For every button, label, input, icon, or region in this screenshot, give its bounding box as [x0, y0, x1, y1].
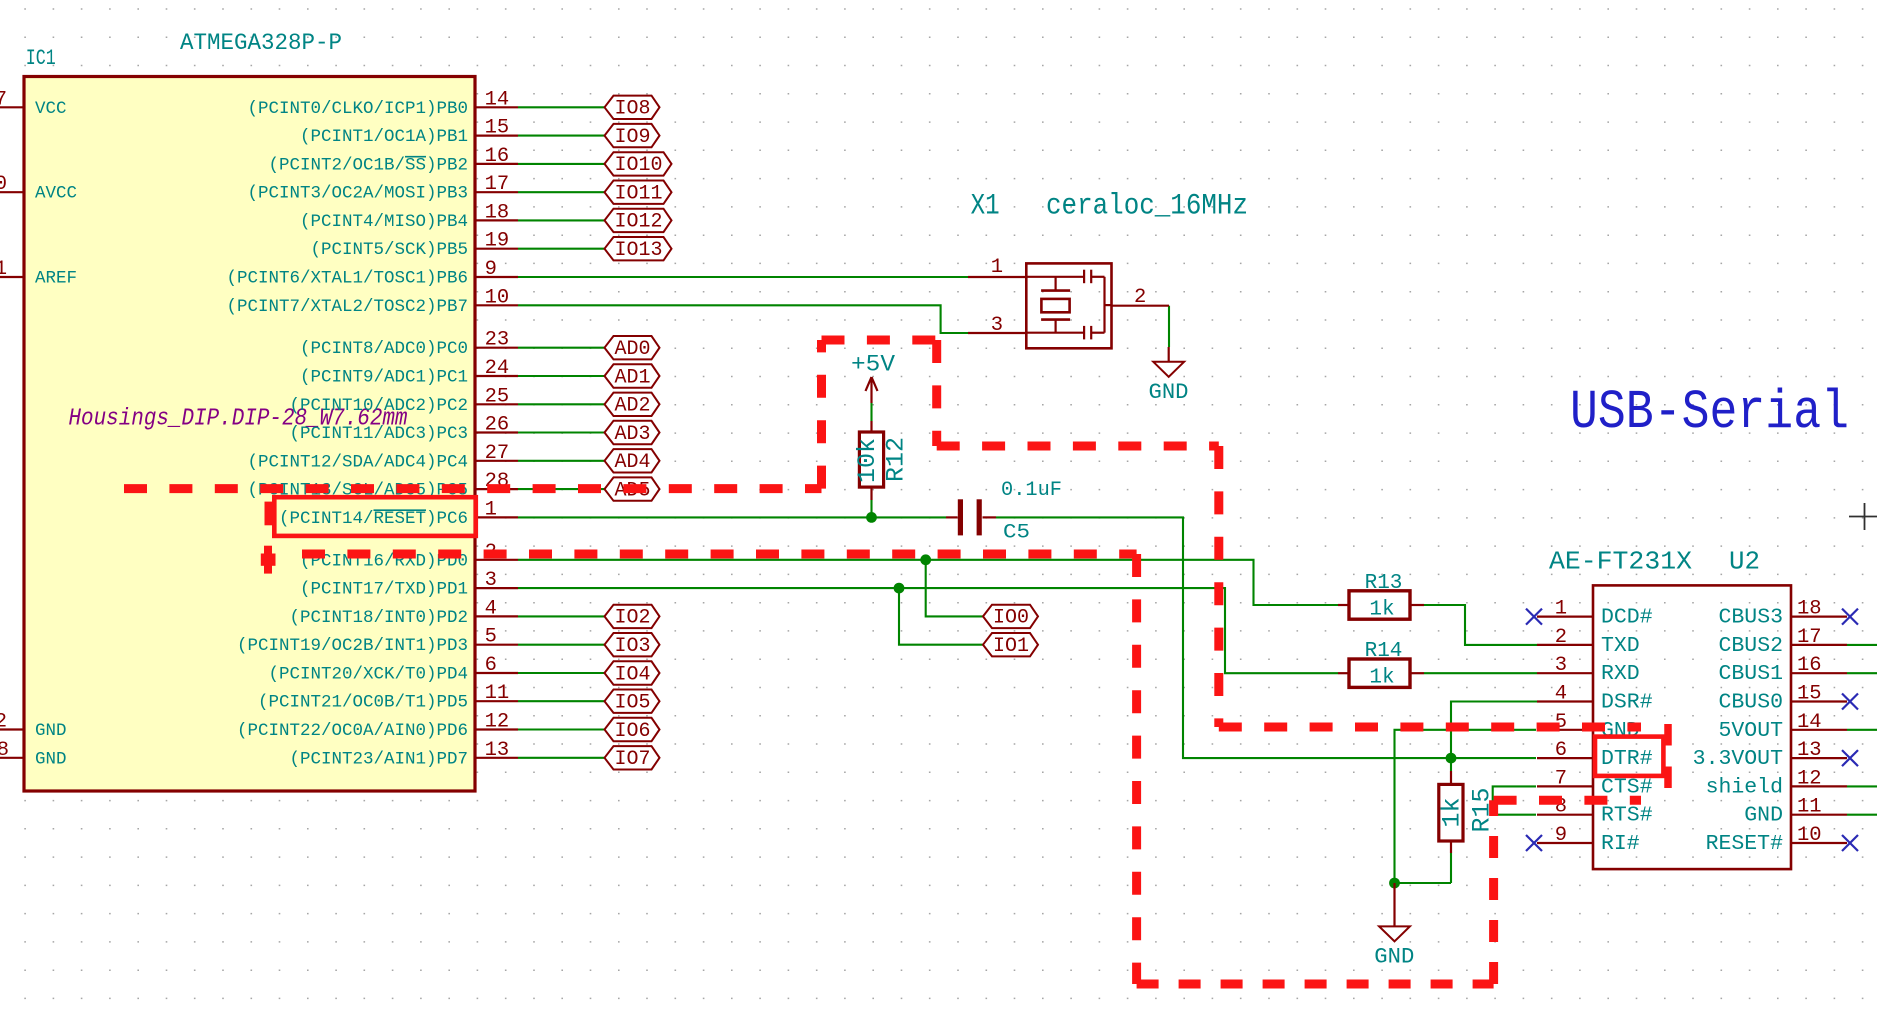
- IC1 pin 4 PD2: [289, 597, 518, 628]
- IC1 pin 11 PD5: [258, 682, 518, 713]
- svg-text:IO5: IO5: [615, 692, 651, 715]
- svg-text:0.1uF: 0.1uF: [1001, 479, 1062, 502]
- wire PB5 to label IO13: [518, 248, 605, 250]
- wire PC5 to label AD5: [518, 488, 605, 490]
- wire U2 5VOUT pin14 to edge: [1847, 729, 1877, 731]
- svg-text:CBUS2: CBUS2: [1718, 634, 1783, 658]
- svg-text:shield: shield: [1706, 775, 1783, 799]
- svg-text:23: 23: [485, 329, 510, 352]
- svg-text:5VOUT: 5VOUT: [1718, 719, 1783, 743]
- svg-text:1: 1: [1555, 598, 1567, 621]
- IC1 pin 8x GND (left): [0, 739, 67, 770]
- wire PC1 to label AD1: [518, 375, 605, 377]
- wire DSR pin4 to DTR net: [1451, 702, 1537, 759]
- junction GND node: [1389, 878, 1400, 889]
- svg-text:3: 3: [1555, 654, 1567, 677]
- resistor R13 1k: [1338, 572, 1424, 622]
- svg-text:13: 13: [1797, 739, 1822, 762]
- U2 pin 9 RI#: [1526, 824, 1640, 856]
- U2 pin 5 GND: [1537, 711, 1640, 743]
- IC1 pin 24 PC1: [300, 357, 518, 388]
- svg-text:RTS#: RTS#: [1601, 804, 1653, 828]
- wire U2 CBUS1 pin16 to edge: [1847, 672, 1877, 674]
- wire PC3 to label AD3: [518, 431, 605, 433]
- junction PD1/IO1: [894, 583, 905, 594]
- svg-text:U2: U2: [1729, 547, 1760, 577]
- junction PD0/IO0: [920, 554, 931, 565]
- svg-text:14: 14: [485, 88, 510, 111]
- IC1 pin 7 VCC (left): [0, 88, 67, 119]
- IC1 pin 3 PD1: [300, 569, 518, 600]
- U2 pin 8 RTS#: [1537, 796, 1653, 828]
- junction RESET/R12: [866, 512, 877, 523]
- svg-text:16: 16: [1797, 654, 1822, 677]
- svg-text:AREF: AREF: [35, 269, 77, 289]
- svg-text:IO13: IO13: [615, 239, 663, 262]
- svg-text:4: 4: [485, 597, 497, 620]
- wire R15 bottom to GND node: [1450, 853, 1452, 883]
- svg-text:(PCINT12/SDA/ADC4)PC4: (PCINT12/SDA/ADC4)PC4: [247, 452, 468, 472]
- wire U2 shield pin12 to edge: [1847, 785, 1877, 787]
- U2 pin 6 DTR#: [1537, 739, 1653, 771]
- red highlight dashed path (DTR/GND trace): [302, 554, 1641, 984]
- svg-text:IO8: IO8: [615, 98, 651, 121]
- svg-text:AVCC: AVCC: [35, 184, 77, 204]
- svg-text:(PCINT6/XTAL1/TOSC1)PB6: (PCINT6/XTAL1/TOSC1)PB6: [226, 269, 468, 289]
- svg-text:10: 10: [485, 286, 510, 309]
- svg-text:19: 19: [485, 230, 510, 253]
- U2 pin 11 GND: [1744, 796, 1847, 828]
- svg-text:IO1: IO1: [993, 635, 1029, 658]
- crosshair cursor: [1849, 503, 1877, 530]
- svg-text:(PCINT14/RESET)PC6: (PCINT14/RESET)PC6: [279, 509, 468, 529]
- svg-text:7: 7: [1555, 767, 1567, 790]
- wire RESET net: PC6 to C5: [518, 516, 946, 518]
- svg-text:IO6: IO6: [615, 720, 651, 743]
- svg-text:6: 6: [485, 654, 497, 677]
- op U2 AE-FT231X body: [1593, 585, 1791, 869]
- svg-text:8: 8: [0, 739, 9, 762]
- IC1 pin 16 PB2: [268, 145, 518, 176]
- svg-text:18: 18: [1797, 598, 1822, 621]
- IC1 pin 26 PC3: [289, 414, 518, 445]
- svg-text:CBUS3: CBUS3: [1718, 606, 1783, 630]
- U2 pin 14 5VOUT: [1718, 711, 1847, 743]
- wire PB0 to label IO8: [518, 106, 605, 108]
- IC1 pin 20 AVCC (left): [0, 173, 77, 204]
- svg-text:(PCINT23/AIN1)PD7: (PCINT23/AIN1)PD7: [289, 749, 468, 769]
- wire U2 CBUS2 pin17 to edge: [1847, 644, 1877, 646]
- svg-text:10: 10: [1797, 824, 1822, 847]
- wire IO1 branch from PD1: [899, 588, 983, 645]
- svg-text:AD3: AD3: [615, 423, 651, 446]
- ground GND (below R15): [1374, 883, 1414, 970]
- wire PD1 to R14: [518, 588, 1338, 673]
- svg-text:20: 20: [0, 173, 7, 196]
- global label IO9: [605, 124, 660, 149]
- wire PD7 to label IO7: [518, 757, 605, 759]
- svg-text:16: 16: [485, 145, 510, 168]
- wire PC4 to label AD4: [518, 460, 605, 462]
- svg-text:3: 3: [991, 314, 1003, 337]
- svg-text:12: 12: [485, 711, 510, 734]
- wire RESET net: C5 to DTR wire: [996, 517, 1536, 758]
- svg-text:(PCINT9/ADC1)PC1: (PCINT9/ADC1)PC1: [300, 368, 468, 388]
- IC1 pin 18 PB4: [300, 201, 518, 232]
- svg-text:7: 7: [0, 88, 7, 111]
- resonator X1 ceraloc_16MHz body: [1026, 263, 1111, 348]
- svg-text:CBUS1: CBUS1: [1718, 662, 1783, 686]
- global label AD5: [605, 477, 660, 502]
- IC1 pin 23 PC0: [300, 329, 518, 360]
- U2 pin 13 3.3VOUT: [1693, 739, 1858, 771]
- svg-text:+5V: +5V: [851, 352, 895, 378]
- svg-text:15: 15: [1797, 683, 1822, 706]
- svg-text:1k: 1k: [1369, 599, 1394, 622]
- svg-text:3.3VOUT: 3.3VOUT: [1693, 747, 1783, 771]
- svg-text:1: 1: [485, 498, 497, 521]
- wire PD2 to label IO2: [518, 615, 605, 617]
- svg-text:(PCINT8/ADC0)PC0: (PCINT8/ADC0)PC0: [300, 339, 468, 359]
- svg-text:DCD#: DCD#: [1601, 606, 1653, 630]
- svg-text:1k: 1k: [1369, 667, 1394, 690]
- wire PB7 pin10 to X1 pin3: [518, 305, 968, 333]
- global label IO12: [605, 209, 672, 234]
- svg-text:DTR#: DTR#: [1601, 747, 1653, 771]
- wire CTS pin7 to RTS pin8: [1493, 786, 1536, 814]
- svg-text:11: 11: [1797, 796, 1822, 819]
- svg-text:IC1: IC1: [26, 46, 56, 71]
- svg-text:IO11: IO11: [615, 183, 663, 206]
- svg-text:CTS#: CTS#: [1601, 775, 1653, 799]
- IC1 pin 1 PC6: [279, 498, 518, 529]
- IC1 pin 19 PB5: [310, 230, 518, 261]
- wire X1 pin2 to GND: [1168, 306, 1170, 347]
- svg-text:(PCINT4/MISO)PB4: (PCINT4/MISO)PB4: [300, 212, 468, 232]
- global label IO8: [605, 96, 660, 121]
- svg-text:(PCINT22/OC0A/AIN0)PD6: (PCINT22/OC0A/AIN0)PD6: [237, 721, 468, 741]
- svg-text:AD1: AD1: [615, 366, 651, 389]
- IC1 pin 15 PB1: [300, 117, 518, 148]
- svg-text:(PCINT18/INT0)PD2: (PCINT18/INT0)PD2: [289, 608, 468, 628]
- IC1 pin 9 PB6: [226, 258, 518, 289]
- svg-text:(PCINT21/OC0B/T1)PD5: (PCINT21/OC0B/T1)PD5: [258, 693, 468, 713]
- wire PC2 to label AD2: [518, 403, 605, 405]
- red highlight box around PC6 RESET pin name: [274, 497, 476, 536]
- svg-text:GND: GND: [35, 749, 67, 769]
- red cross marker on PD0: [261, 546, 276, 574]
- svg-text:3: 3: [485, 569, 497, 592]
- wire R12 to RESET net: [870, 500, 872, 517]
- global label IO0: [983, 605, 1038, 630]
- red tick left of RESET box: [265, 502, 274, 526]
- global label AD2: [605, 393, 660, 418]
- wire U2 GND pin11 to edge: [1847, 814, 1877, 816]
- svg-text:5: 5: [485, 626, 497, 649]
- svg-text:(PCINT11/ADC3)PC3: (PCINT11/ADC3)PC3: [289, 424, 468, 444]
- svg-text:ceraloc_16MHz: ceraloc_16MHz: [1046, 190, 1248, 224]
- IC1 pin 10 PB7: [226, 286, 518, 317]
- svg-text:25: 25: [485, 385, 510, 408]
- U2 pin 16 CBUS1: [1718, 654, 1847, 686]
- wire PB6 pin9 to X1 pin1: [518, 276, 968, 278]
- red highlight dashed path (RESET trace): [124, 340, 1641, 727]
- svg-text:(PCINT7/XTAL2/TOSC2)PB7: (PCINT7/XTAL2/TOSC2)PB7: [226, 297, 468, 317]
- svg-text:17: 17: [1797, 626, 1822, 649]
- svg-text:VCC: VCC: [35, 99, 67, 119]
- svg-text:14: 14: [1797, 711, 1822, 734]
- wire PB1 to label IO9: [518, 135, 605, 137]
- svg-text:R13: R13: [1365, 572, 1403, 595]
- svg-text:12: 12: [1797, 767, 1822, 790]
- global label IO13: [605, 237, 672, 262]
- svg-text:27: 27: [485, 442, 510, 465]
- global label IO3: [605, 633, 660, 658]
- X1 pin 1: [968, 256, 1026, 279]
- svg-text:9: 9: [1555, 824, 1567, 847]
- svg-text:IO2: IO2: [615, 607, 651, 630]
- svg-text:15: 15: [485, 117, 510, 140]
- X1 pin 2: [1112, 286, 1170, 309]
- svg-text:IO10: IO10: [615, 154, 663, 177]
- IC1 pin 13 PD7: [289, 739, 518, 770]
- svg-text:CBUS0: CBUS0: [1718, 691, 1783, 715]
- wire PD6 to label IO6: [518, 728, 605, 730]
- red dashed tick right of DTR# box: [1664, 724, 1672, 790]
- svg-text:11: 11: [485, 682, 510, 705]
- svg-text:22: 22: [0, 711, 7, 734]
- IC1 pin 5 PD3: [237, 626, 518, 657]
- svg-text:DSR#: DSR#: [1601, 691, 1653, 715]
- wire PD4 to label IO4: [518, 672, 605, 674]
- global label AD3: [605, 421, 660, 446]
- U2 pin 7 CTS#: [1537, 767, 1653, 799]
- IC1 pin 25 PC2: [289, 385, 518, 416]
- global label IO5: [605, 690, 660, 715]
- global label IO1: [983, 633, 1038, 658]
- svg-text:18: 18: [485, 201, 510, 224]
- svg-text:RXD: RXD: [1601, 662, 1640, 686]
- svg-text:AD2: AD2: [615, 395, 651, 418]
- svg-text:AD0: AD0: [615, 338, 651, 361]
- svg-text:9: 9: [485, 258, 497, 281]
- wire PB2 to label IO10: [518, 163, 605, 165]
- svg-text:GND: GND: [1149, 380, 1189, 405]
- wire DTR junction to R15 top: [1450, 758, 1452, 771]
- svg-text:2: 2: [1134, 286, 1146, 309]
- wire PD5 to label IO5: [518, 700, 605, 702]
- capacitor C5 0.1uF: [946, 479, 1062, 545]
- svg-text:TXD: TXD: [1601, 634, 1640, 658]
- U2 pin 18 CBUS3: [1718, 598, 1858, 630]
- IC1 pin 14 PB0: [247, 88, 518, 119]
- svg-text:26: 26: [485, 414, 510, 437]
- wire PC0 to label AD0: [518, 347, 605, 349]
- svg-text:GND: GND: [1744, 804, 1783, 828]
- svg-text:24: 24: [485, 357, 510, 380]
- svg-text:1k: 1k: [1438, 797, 1467, 827]
- power +5V: [851, 352, 895, 404]
- svg-text:IO3: IO3: [615, 635, 651, 658]
- U2 pin 2 TXD: [1537, 626, 1640, 658]
- svg-text:C5: C5: [1003, 522, 1030, 545]
- global label IO4: [605, 661, 660, 686]
- wire U2 GND pin5 to GND node: [1395, 730, 1537, 883]
- wire PB3 to label IO11: [518, 191, 605, 193]
- svg-text:(PCINT2/OC1B/SS)PB2: (PCINT2/OC1B/SS)PB2: [268, 155, 468, 175]
- U2 pin 17 CBUS2: [1718, 626, 1847, 658]
- global label AD4: [605, 449, 660, 474]
- wire R13 to U2 TXD pin2: [1424, 605, 1537, 645]
- svg-text:AD4: AD4: [615, 451, 651, 474]
- svg-text:(PCINT20/XCK/T0)PD4: (PCINT20/XCK/T0)PD4: [268, 665, 468, 685]
- global label IO7: [605, 746, 660, 771]
- svg-text:6: 6: [1555, 739, 1567, 762]
- svg-text:1: 1: [991, 256, 1003, 279]
- IC1 pin 12 PD6: [237, 711, 518, 742]
- wire PD3 to label IO3: [518, 644, 605, 646]
- U2 pin 15 CBUS0: [1718, 683, 1858, 715]
- ground GND (below X1): [1149, 347, 1189, 405]
- svg-text:IO7: IO7: [615, 748, 651, 771]
- svg-text:10k: 10k: [853, 438, 882, 483]
- svg-text:IO4: IO4: [615, 663, 651, 686]
- svg-text:(PCINT10/ADC2)PC2: (PCINT10/ADC2)PC2: [289, 396, 468, 416]
- IC1 pin 2 PD0: [300, 541, 518, 572]
- wire IO0 branch from PD0: [926, 560, 983, 617]
- global label IO11: [605, 181, 672, 206]
- svg-text:21: 21: [0, 258, 7, 281]
- svg-text:AE-FT231X: AE-FT231X: [1549, 547, 1692, 577]
- red highlight box around U2 DTR# pin name: [1595, 737, 1663, 776]
- svg-text:(PCINT0/CLKO/ICP1)PB0: (PCINT0/CLKO/ICP1)PB0: [247, 99, 468, 119]
- U2 pin 3 RXD: [1537, 654, 1640, 686]
- svg-text:(PCINT5/SCK)PB5: (PCINT5/SCK)PB5: [310, 240, 468, 260]
- svg-text:(PCINT19/OC2B/INT1)PD3: (PCINT19/OC2B/INT1)PD3: [237, 636, 468, 656]
- IC1 pin 21 AREF (left): [0, 258, 77, 289]
- global label IO6: [605, 718, 660, 743]
- resistor R15 1k: [1438, 771, 1497, 853]
- svg-text:IO12: IO12: [615, 211, 663, 234]
- svg-text:IO0: IO0: [993, 607, 1029, 630]
- svg-text:ATMEGA328P-P: ATMEGA328P-P: [180, 30, 342, 56]
- wire R14 to U2 RXD pin3: [1424, 672, 1537, 674]
- IC1 ATMEGA328P-P body: [24, 77, 475, 792]
- svg-text:4: 4: [1555, 683, 1567, 706]
- resistor R12 10k: [853, 421, 911, 500]
- IC1 pin 17 PB3: [247, 173, 518, 204]
- svg-text:IO9: IO9: [615, 126, 651, 149]
- svg-text:RESET#: RESET#: [1706, 832, 1784, 856]
- IC1 pin 22 GND (left): [0, 711, 67, 742]
- svg-text:RI#: RI#: [1601, 832, 1640, 856]
- IC1 pin 28 PC5: [247, 470, 518, 501]
- svg-text:GND: GND: [1374, 945, 1414, 970]
- U2 pin 12 shield: [1706, 767, 1847, 799]
- X1 pin 3: [968, 314, 1026, 337]
- svg-text:17: 17: [485, 173, 510, 196]
- svg-text:(PCINT17/TXD)PD1: (PCINT17/TXD)PD1: [300, 580, 468, 600]
- svg-text:13: 13: [485, 739, 510, 762]
- global label IO2: [605, 605, 660, 630]
- svg-text:GND: GND: [35, 721, 67, 741]
- IC1 pin 27 PC4: [247, 442, 518, 473]
- U2 pin 4 DSR#: [1537, 683, 1653, 715]
- global label AD1: [605, 364, 660, 389]
- global label IO10: [605, 152, 672, 177]
- U2 pin 1 DCD#: [1526, 598, 1653, 630]
- global label AD0: [605, 336, 660, 361]
- svg-text:2: 2: [1555, 626, 1567, 649]
- svg-text:X1: X1: [971, 190, 1000, 224]
- svg-text:R14: R14: [1365, 640, 1403, 663]
- resistor R14 1k: [1338, 640, 1424, 690]
- IC1 pin 6 PD4: [268, 654, 518, 685]
- junction DTR/DSR/R15: [1446, 753, 1457, 764]
- wire +5V to R12: [870, 403, 872, 421]
- wire PD0 to R13: [518, 560, 1338, 605]
- svg-text:(PCINT1/OC1A)PB1: (PCINT1/OC1A)PB1: [300, 127, 468, 147]
- wire PB4 to label IO12: [518, 219, 605, 221]
- svg-text:R12: R12: [882, 437, 911, 482]
- svg-text:(PCINT3/OC2A/MOSI)PB3: (PCINT3/OC2A/MOSI)PB3: [247, 184, 468, 204]
- svg-text:USB-Serial: USB-Serial: [1570, 381, 1849, 444]
- U2 pin 10 RESET#: [1706, 824, 1858, 856]
